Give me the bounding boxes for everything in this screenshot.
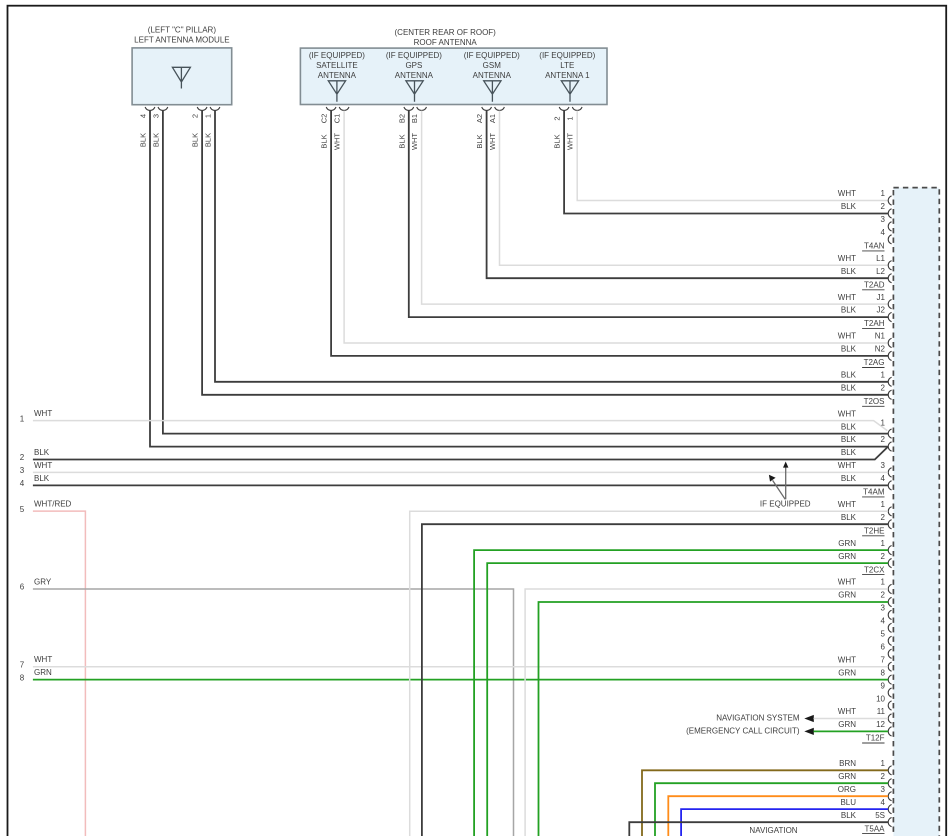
GPS antenna symbol [406,81,423,102]
svg-text:BLK: BLK [841,513,857,522]
svg-text:4: 4 [881,798,886,807]
svg-text:BLK: BLK [841,448,857,457]
connector T2AG pin N1 terminal [888,338,891,347]
svg-text:NAVIGATION SYSTEM: NAVIGATION SYSTEM [716,714,800,723]
wire BLK GSM pin A2 [487,111,888,279]
connector T2CX pin 1 terminal [888,546,891,555]
connector T12F pin 11 terminal [888,714,891,723]
svg-text:1: 1 [566,116,575,120]
svg-text:T2CX: T2CX [864,565,885,574]
svg-text:WHT: WHT [838,254,856,263]
svg-text:T4AM: T4AM [863,488,885,497]
svg-text:WHT: WHT [838,461,856,470]
svg-text:(CENTER REAR OF ROOF): (CENTER REAR OF ROOF) [395,28,497,37]
svg-text:BLK: BLK [841,371,857,380]
wire BLK SATELLITE pin C2 [331,111,888,356]
left antenna module U1 box [132,48,232,105]
svg-text:BLK: BLK [34,448,50,457]
svg-text:4: 4 [20,479,25,488]
svg-text:4: 4 [881,474,886,483]
svg-text:GRY: GRY [34,578,52,587]
svg-text:BLK: BLK [841,811,857,820]
svg-text:11: 11 [877,707,886,716]
connector T12F pin 8 terminal [888,675,891,684]
svg-text:WHT: WHT [838,293,856,302]
LTE antenna pin 1 terminal [572,107,582,110]
svg-text:BLK: BLK [553,134,562,148]
svg-text:BLK: BLK [841,474,857,483]
wire WHT T12F pin 1 (corner, down to bottom) [525,589,888,836]
wire GRN T2CX pin 1 (corner, down to bottom) [474,550,888,836]
svg-text:2: 2 [20,453,25,462]
svg-text:12: 12 [876,720,885,729]
svg-text:J2: J2 [877,306,886,315]
svg-text:BLK: BLK [841,202,857,211]
wire BLK T2HE pin 2 (corner, down to bottom) [422,524,888,836]
svg-text:2: 2 [881,772,886,781]
GPS antenna pin B2 terminal [404,107,414,110]
svg-text:9: 9 [881,681,886,690]
connector T2HE pin 1 terminal [888,507,891,516]
antenna symbol (left antenna module) [172,67,190,88]
connector T4AM pin 1 terminal [888,429,891,438]
connector T5AA pin 2 terminal [888,779,891,788]
svg-text:C1: C1 [333,114,342,124]
svg-text:L2: L2 [876,267,885,276]
connector T12F pin 4 terminal [888,623,891,632]
svg-text:BLK: BLK [841,422,857,431]
wire WHT circuit 1 (to T4AM pin 1, slanted end) [33,421,887,431]
connector T2AH pin J2 terminal [888,312,891,321]
wire WHT SATELLITE pin C1 [344,111,888,343]
connector T2HE pin 2 terminal [888,520,891,529]
wire ORG T5AA pin 3 (corner, down to bottom) [668,796,888,836]
svg-text:BLK: BLK [397,134,406,148]
connector T12F pin 2 terminal [888,597,891,606]
svg-text:(EMERGENCY CALL CIRCUIT): (EMERGENCY CALL CIRCUIT) [686,726,800,735]
connector T4AN pin 4 terminal [888,235,891,244]
wire BLK left-module pin 4 [150,111,888,447]
connector T4AN pin 2 terminal [888,209,891,218]
wire GRN T2CX pin 2 (corner, down to bottom) [487,563,888,836]
svg-text:IF EQUIPPED: IF EQUIPPED [760,499,811,508]
svg-text:BLK: BLK [191,133,200,147]
GPS antenna pin B1 terminal [417,107,427,110]
SATELLITE antenna pin C1 terminal [339,107,349,110]
svg-text:4: 4 [139,114,148,118]
left antenna module pin 2 terminal [197,107,207,110]
connector T5AA pin 1 terminal [888,766,891,775]
svg-text:5: 5 [881,630,886,639]
svg-text:GRN: GRN [838,668,856,677]
svg-text:GRN: GRN [838,539,856,548]
svg-text:2: 2 [881,552,886,561]
connector T2AD pin L2 terminal [888,274,891,283]
svg-text:GRN: GRN [838,772,856,781]
svg-text:WHT: WHT [838,578,856,587]
arrow to NAVIGATION SYSTEM (pin 12) [804,728,814,735]
wire GRN T12F pin 2 (corner, down to bottom) [539,602,889,836]
connector T12F pin 1 terminal [888,584,891,593]
svg-text:GSM: GSM [483,61,502,70]
wire BLK left-module pin 1 [215,111,888,382]
IF EQUIPPED arrow (to circuit 3 wire) [773,480,786,499]
wire GRN circuit 8 (to T12F pin 8) [33,679,888,681]
connector T2AH pin J1 terminal [888,300,891,309]
svg-text:WHT: WHT [838,332,856,341]
svg-text:2: 2 [191,114,200,118]
svg-text:1: 1 [881,189,886,198]
svg-text:1: 1 [881,539,886,548]
svg-text:SATELLITE: SATELLITE [316,61,358,70]
svg-text:ORG: ORG [838,785,856,794]
svg-text:WHT: WHT [838,500,856,509]
wire BLU T5AA pin 4 (corner, down to bottom) [681,809,888,836]
navigation module box (partial, bottom) [629,822,888,836]
svg-text:2: 2 [881,202,886,211]
svg-text:T2AH: T2AH [864,319,885,328]
wire BLK circuit 2 (to T4AM pin 2, slanted end) [33,447,888,460]
svg-text:1: 1 [20,414,25,423]
svg-text:7: 7 [20,660,25,669]
svg-text:BLK: BLK [204,133,213,147]
svg-text:B1: B1 [410,114,419,123]
svg-text:GRN: GRN [838,720,856,729]
svg-text:ANTENNA: ANTENNA [473,71,512,80]
svg-text:J1: J1 [877,293,886,302]
connector T2OS pin 2 terminal [888,390,891,399]
svg-text:ANTENNA: ANTENNA [318,71,357,80]
svg-text:BLK: BLK [34,474,50,483]
connector T12F pin 5 terminal [888,636,891,645]
wire BRN T5AA pin 1 (corner, down to bottom) [642,770,888,836]
wire BLK left-module pin 3 [163,111,888,434]
GSM antenna pin A2 terminal [482,107,492,110]
svg-text:LTE: LTE [560,61,574,70]
svg-text:WHT: WHT [838,655,856,664]
svg-text:2: 2 [553,116,562,120]
SATELLITE antenna symbol [328,81,345,102]
svg-text:WHT: WHT [34,461,52,470]
svg-text:3: 3 [881,785,886,794]
svg-text:(IF EQUIPPED): (IF EQUIPPED) [386,51,442,60]
left antenna module pin 4 terminal [145,107,155,110]
svg-text:1: 1 [881,371,886,380]
svg-text:(IF EQUIPPED): (IF EQUIPPED) [309,51,365,60]
svg-text:WHT: WHT [838,707,856,716]
svg-text:T4AN: T4AN [864,242,885,251]
connector T4AN pin 3 terminal [888,222,891,231]
connector T12F pin 7 terminal [888,662,891,671]
svg-text:ANTENNA: ANTENNA [395,71,434,80]
svg-text:WHT/RED: WHT/RED [34,500,72,509]
svg-text:BLK: BLK [841,383,857,392]
left antenna module pin 3 terminal [158,107,168,110]
svg-text:GPS: GPS [405,61,422,70]
svg-text:T2AG: T2AG [864,358,885,367]
connector T5AA pin 4 terminal [888,805,891,814]
svg-text:N1: N1 [875,332,886,341]
svg-text:LEFT ANTENNA MODULE: LEFT ANTENNA MODULE [134,36,229,45]
connector T2OS pin 1 terminal [888,377,891,386]
LTE antenna pin 2 terminal [559,107,569,110]
connector T12F pin 6 terminal [888,649,891,658]
wire WHT GSM pin A1 [500,111,889,266]
svg-text:GRN: GRN [34,668,52,677]
GSM antenna symbol [484,81,501,102]
svg-text:3: 3 [20,466,25,475]
connector T12F pin 3 terminal [888,610,891,619]
connector T12F pin 10 terminal [888,701,891,710]
connector T12F pin 9 terminal [888,688,891,697]
svg-text:ANTENNA 1: ANTENNA 1 [545,71,590,80]
wire BLK circuit 4 (to T4AM pin 4) [33,484,888,486]
svg-text:2: 2 [881,383,886,392]
svg-text:(IF EQUIPPED): (IF EQUIPPED) [539,51,595,60]
svg-text:WHT: WHT [34,409,52,418]
connector T4AM pin 4 terminal [888,481,891,490]
svg-text:N2: N2 [875,345,886,354]
svg-text:4: 4 [881,228,886,237]
svg-text:T12F: T12F [866,734,885,743]
svg-text:BLK: BLK [320,134,329,148]
svg-text:WHT: WHT [566,133,575,150]
svg-text:5S: 5S [875,811,885,820]
svg-text:ROOF ANTENNA: ROOF ANTENNA [414,38,478,47]
svg-text:BLK: BLK [841,435,857,444]
svg-text:8: 8 [881,668,886,677]
svg-text:B2: B2 [397,114,406,123]
roof antenna box [300,48,607,104]
svg-text:7: 7 [881,655,886,664]
wire GRN T12F pin 12 [814,730,889,732]
svg-text:A1: A1 [488,114,497,123]
svg-text:1: 1 [881,500,886,509]
svg-text:GRN: GRN [838,552,856,561]
svg-text:5: 5 [20,505,25,514]
svg-text:BLU: BLU [840,798,856,807]
svg-text:T2AD: T2AD [864,280,885,289]
svg-text:3: 3 [151,114,160,118]
svg-text:WHT: WHT [838,189,856,198]
wire BLK left-module pin 2 [202,111,888,395]
svg-text:2: 2 [881,435,886,444]
svg-text:WHT: WHT [838,409,856,418]
svg-text:BLK: BLK [841,306,857,315]
svg-text:BLK: BLK [841,345,857,354]
svg-text:WHT: WHT [34,655,52,664]
arrow to NAVIGATION SYSTEM (pin 11) [804,715,814,722]
module 20-way connector (dashed) [893,188,939,836]
connector T2CX pin 2 terminal [888,559,891,568]
svg-text:WHT: WHT [488,133,497,150]
svg-text:BLK: BLK [151,133,160,147]
svg-text:(LEFT "C" PILLAR): (LEFT "C" PILLAR) [148,25,217,34]
wire WHT/RED circuit 5 (down to bottom) [33,511,86,836]
svg-text:NAVIGATION: NAVIGATION [749,826,797,835]
svg-text:BLK: BLK [475,134,484,148]
svg-text:T2OS: T2OS [864,397,885,406]
wire WHT LTE pin 1 [577,111,888,201]
svg-text:WHT: WHT [410,133,419,150]
svg-text:3: 3 [881,215,886,224]
wire BLK LTE pin 2 [564,111,888,214]
svg-text:4: 4 [881,617,886,626]
SATELLITE antenna pin C2 terminal [326,107,336,110]
svg-text:BLK: BLK [841,267,857,276]
svg-text:L1: L1 [876,254,885,263]
left antenna module pin 1 terminal [210,107,220,110]
wire GRY circuit 6 (down at x=513) [33,589,514,836]
GSM antenna pin A1 terminal [495,107,505,110]
svg-text:6: 6 [20,583,25,592]
connector T5AA pin 5S terminal [888,818,891,827]
connector T4AM pin 3 terminal [888,468,891,477]
svg-text:1: 1 [881,759,886,768]
wire WHT GPS pin B1 [422,111,888,305]
connector T2AD pin L1 terminal [888,261,891,270]
svg-text:BRN: BRN [839,759,856,768]
connector T4AM pin 2 terminal [888,442,891,451]
wire WHT T12F pin 11 [814,718,889,720]
svg-text:1: 1 [881,578,886,587]
wire BLK GPS pin B2 [409,111,888,318]
LTE antenna symbol [561,81,578,102]
svg-text:8: 8 [20,673,25,682]
svg-text:3: 3 [881,604,886,613]
svg-text:C2: C2 [320,114,329,124]
svg-text:1: 1 [204,114,213,118]
wire WHT circuit 7 (to T12F pin 7) [33,666,888,668]
IF EQUIPPED arrow (to circuit 2 wire) [785,467,787,500]
connector T4AN pin 1 terminal [888,196,891,205]
svg-text:2: 2 [881,513,886,522]
wire WHT circuit 3 (to T4AM pin 3) [33,471,888,473]
svg-text:GRN: GRN [838,591,856,600]
wire WHT T2HE pin 1 (corner, down to bottom) [410,511,888,836]
connector T2AG pin N2 terminal [888,351,891,360]
svg-text:3: 3 [881,461,886,470]
svg-text:BLK: BLK [139,133,148,147]
connector T5AA pin 3 terminal [888,792,891,801]
svg-text:T2HE: T2HE [864,526,884,535]
wire GRN T5AA pin 2 (corner, down to bottom) [655,783,888,836]
svg-text:2: 2 [881,591,886,600]
svg-text:WHT: WHT [333,133,342,150]
svg-text:6: 6 [881,643,886,652]
svg-text:T5AA: T5AA [864,824,885,833]
svg-text:A2: A2 [475,114,484,123]
svg-text:10: 10 [876,694,885,703]
svg-text:(IF EQUIPPED): (IF EQUIPPED) [464,51,520,60]
connector T12F pin 12 terminal [888,727,891,736]
